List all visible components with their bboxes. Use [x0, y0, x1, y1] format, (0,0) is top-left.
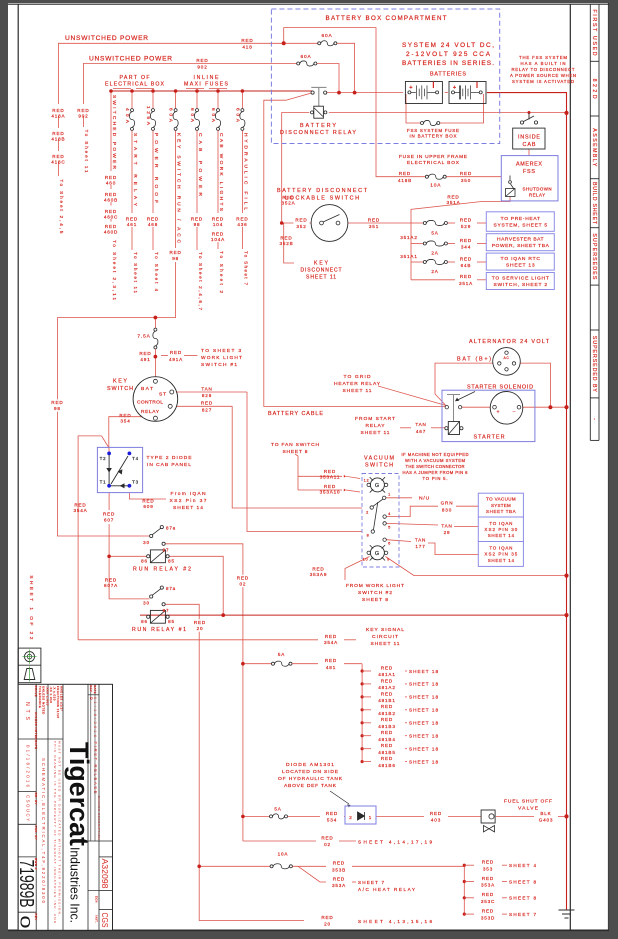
svg-text:5A: 5A	[431, 231, 438, 236]
svg-text:RED: RED	[105, 175, 117, 180]
svg-text:403: 403	[431, 818, 441, 823]
svg-text:29: 29	[444, 530, 451, 535]
svg-text:98: 98	[194, 222, 201, 227]
svg-text:87: 87	[163, 548, 170, 553]
svg-text:VACUUM: VACUUM	[364, 456, 395, 462]
svg-text:TYPE 2 DIODE: TYPE 2 DIODE	[147, 455, 193, 461]
svg-text:IN CAB PANEL: IN CAB PANEL	[147, 462, 191, 468]
svg-text:10A: 10A	[278, 851, 289, 856]
svg-text:481A1: 481A1	[378, 672, 395, 677]
svg-text:UNSWITCHED POWER: UNSWITCHED POWER	[89, 56, 172, 63]
svg-text:RED: RED	[321, 835, 333, 840]
svg-text:THIS DRAWING IS THE PROPERTY O: THIS DRAWING IS THE PROPERTY OF TIGERCAT…	[53, 741, 57, 924]
svg-text:FUSE IN UPPER FRAME: FUSE IN UPPER FRAME	[399, 154, 467, 160]
svg-text:98: 98	[54, 406, 61, 411]
svg-text:KEY: KEY	[314, 261, 329, 267]
svg-text:AC: AC	[504, 356, 510, 360]
svg-text:INLINE: INLINE	[194, 75, 220, 81]
svg-text:87: 87	[163, 608, 170, 613]
svg-text:DR. BY: DR. BY	[34, 793, 38, 805]
svg-text:RED: RED	[77, 108, 89, 113]
svg-text:353A10: 353A10	[320, 490, 341, 495]
svg-text:902: 902	[78, 114, 88, 119]
svg-text:RED: RED	[147, 217, 159, 222]
svg-text:461: 461	[127, 222, 137, 227]
svg-text:RED: RED	[74, 503, 86, 508]
svg-text:CAB WORK LIGHTS: CAB WORK LIGHTS	[218, 133, 224, 211]
svg-text:To Sheet 11: To Sheet 11	[84, 130, 89, 173]
svg-text:353D: 353D	[481, 915, 495, 920]
svg-text:SYSTEM IS ACTIVATED: SYSTEM IS ACTIVATED	[512, 79, 574, 84]
svg-text:RELAY: RELAY	[529, 193, 545, 198]
svg-text:418B: 418B	[51, 137, 65, 142]
svg-text:SWITCH, SHEET 2: SWITCH, SHEET 2	[493, 282, 547, 288]
svg-text:85: 85	[168, 559, 175, 564]
svg-text:BATTERY CABLE: BATTERY CABLE	[268, 411, 323, 417]
svg-text:RED: RED	[201, 401, 213, 406]
svg-text:12: 12	[364, 478, 370, 483]
svg-text:HAS A BUILT IN: HAS A BUILT IN	[521, 61, 566, 66]
svg-text:353A: 353A	[481, 883, 495, 888]
svg-text:RED: RED	[460, 256, 472, 261]
svg-text:RED: RED	[282, 195, 294, 200]
svg-text:XS2 Pin 37: XS2 Pin 37	[170, 498, 207, 504]
svg-text:KEY SIGNAL: KEY SIGNAL	[366, 627, 404, 633]
svg-text:TO IQAN RTC: TO IQAN RTC	[501, 256, 541, 262]
svg-text:RED: RED	[241, 38, 253, 43]
svg-text:351A: 351A	[459, 281, 473, 286]
svg-text:T2: T2	[100, 456, 107, 461]
svg-text:10A: 10A	[430, 183, 441, 189]
svg-text:RED: RED	[52, 131, 64, 136]
svg-text:RED: RED	[52, 154, 64, 159]
svg-text:RED: RED	[381, 743, 393, 748]
svg-text:GRN: GRN	[441, 501, 454, 506]
svg-text:HEATER RELAY: HEATER RELAY	[334, 381, 381, 387]
svg-text:RED: RED	[325, 658, 337, 663]
svg-text:RED: RED	[482, 876, 494, 881]
svg-text:RED: RED	[381, 665, 393, 670]
svg-text:BATTERY BOX COMPARTMENT: BATTERY BOX COMPARTMENT	[326, 15, 447, 22]
svg-text:RED: RED	[237, 576, 249, 581]
svg-text:SHEET 13: SHEET 13	[506, 263, 535, 269]
svg-text:FROM START: FROM START	[355, 416, 395, 422]
svg-text:SHEET 18: SHEET 18	[409, 747, 438, 752]
svg-text:354: 354	[120, 419, 130, 424]
svg-text:354A: 354A	[73, 508, 87, 513]
svg-text:LOCATED ON SIDE: LOCATED ON SIDE	[282, 769, 339, 775]
svg-text:BUILD SHEET: BUILD SHEET	[591, 182, 597, 225]
svg-text:481B5: 481B5	[378, 750, 395, 755]
svg-text:351A1: 351A1	[400, 254, 417, 259]
svg-text:481B4: 481B4	[378, 737, 395, 742]
svg-text:9: 9	[387, 557, 390, 562]
svg-text:+: +	[497, 410, 501, 416]
svg-text:−: −	[513, 409, 517, 415]
svg-text:To Sheet 11: To Sheet 11	[133, 252, 138, 293]
svg-text:418A: 418A	[51, 114, 65, 119]
svg-text:To Sheet 2,4,5: To Sheet 2,4,5	[59, 179, 64, 233]
svg-text:BAT: BAT	[141, 386, 153, 392]
svg-text:RED: RED	[119, 413, 131, 418]
svg-text:0: 0	[18, 916, 34, 929]
svg-text:RELAY TO DISCONNECT: RELAY TO DISCONNECT	[512, 67, 575, 72]
svg-text:02: 02	[240, 582, 247, 587]
svg-text:CONTROL: CONTROL	[137, 400, 163, 406]
svg-text:353A11: 353A11	[320, 475, 340, 480]
svg-text:RED: RED	[381, 756, 393, 761]
svg-text:RED: RED	[126, 217, 138, 222]
svg-text:SCHEMATIC,ELECTRICAL,T4F,8220/: SCHEMATIC,ELECTRICAL,T4F,8220/8300	[41, 758, 46, 904]
svg-text:FRACTIONS ±1/16: FRACTIONS ±1/16	[56, 686, 60, 719]
svg-text:491A: 491A	[169, 357, 183, 362]
svg-text:RED: RED	[139, 351, 151, 356]
svg-text:RED: RED	[236, 217, 248, 222]
svg-text:TAN: TAN	[441, 523, 452, 528]
svg-text:60A: 60A	[189, 108, 195, 123]
svg-text:351A2: 351A2	[400, 235, 417, 240]
svg-text:SUPERSEDED BY: SUPERSEDED BY	[591, 336, 597, 393]
svg-text:481B2: 481B2	[378, 711, 395, 716]
svg-text:352A: 352A	[281, 201, 295, 206]
svg-text:.XX ±.010: .XX ±.010	[49, 686, 53, 703]
svg-text:-: -	[591, 418, 597, 420]
svg-text:TO IQAN: TO IQAN	[489, 546, 512, 551]
svg-text:353A: 353A	[332, 883, 346, 888]
svg-text:ECN: ECN	[94, 896, 98, 903]
svg-text:.XXX ±.005: .XXX ±.005	[46, 686, 50, 706]
svg-text:FROM WORK LIGHT: FROM WORK LIGHT	[346, 583, 404, 589]
svg-text:902: 902	[197, 65, 207, 70]
svg-text:460B: 460B	[104, 197, 118, 202]
svg-text:1: 1	[388, 492, 391, 497]
svg-text:5: 5	[388, 525, 391, 530]
svg-text:T4: T4	[132, 456, 139, 461]
svg-text:UNSWITCHED POWER: UNSWITCHED POWER	[65, 35, 148, 42]
svg-text:STARTER SOLENOID: STARTER SOLENOID	[467, 384, 533, 390]
svg-text:30: 30	[143, 540, 150, 545]
svg-text:XS2 PIN 30: XS2 PIN 30	[484, 527, 517, 532]
svg-text:BLK: BLK	[540, 811, 551, 816]
svg-text:20: 20	[197, 626, 204, 631]
svg-text:RED: RED	[482, 892, 494, 897]
svg-text:2A: 2A	[431, 251, 438, 256]
svg-text:RED: RED	[52, 108, 64, 113]
svg-text:INSIDE: INSIDE	[518, 134, 540, 140]
svg-text:DIODE AM1301: DIODE AM1301	[286, 762, 334, 768]
svg-text:RED: RED	[280, 236, 292, 241]
svg-text:418C: 418C	[51, 160, 65, 165]
svg-text:TO PRE-HEAT: TO PRE-HEAT	[501, 216, 540, 222]
svg-text:RED: RED	[191, 217, 203, 222]
svg-text:SHEET 11: SHEET 11	[343, 388, 372, 394]
svg-text:RED: RED	[460, 217, 472, 222]
svg-text:G403: G403	[539, 818, 554, 823]
svg-text:86: 86	[141, 619, 148, 624]
svg-text:Industries Inc.: Industries Inc.	[68, 847, 82, 923]
svg-text:BATTERIES: BATTERIES	[430, 72, 466, 78]
svg-text:5A: 5A	[278, 652, 285, 657]
svg-text:353B: 353B	[332, 868, 346, 873]
svg-text:T1: T1	[100, 480, 107, 485]
svg-text:SCALE: SCALE	[34, 686, 38, 698]
svg-text:G: G	[375, 551, 380, 557]
svg-text:N/U: N/U	[419, 496, 430, 502]
svg-text:RED: RED	[169, 250, 181, 255]
svg-text:40A: 40A	[124, 108, 130, 124]
svg-text:TO VACUUM: TO VACUUM	[486, 497, 516, 502]
svg-text:460: 460	[106, 180, 116, 185]
svg-text:THE FSS SYSTEM: THE FSS SYSTEM	[519, 55, 567, 60]
svg-text:609: 609	[143, 504, 153, 509]
svg-text:71989B: 71989B	[15, 860, 37, 908]
svg-text:MAXI FUSES: MAXI FUSES	[184, 82, 229, 88]
svg-text:352B: 352B	[279, 241, 293, 246]
svg-text:SWITCH: SWITCH	[365, 463, 393, 469]
svg-text:UNLESS NOTED: UNLESS NOTED	[34, 712, 38, 740]
svg-text:A32098: A32098	[100, 859, 109, 890]
svg-text:SYSTEM, SHEET 5: SYSTEM, SHEET 5	[493, 223, 547, 229]
svg-text:SHUTDOWN: SHUTDOWN	[523, 187, 552, 192]
svg-text:481B6: 481B6	[378, 763, 395, 768]
svg-text:460C: 460C	[104, 214, 118, 219]
svg-text:CGS: CGS	[100, 913, 109, 928]
svg-text:5A: 5A	[274, 807, 281, 812]
svg-text:2: 2	[366, 510, 369, 515]
svg-text:177: 177	[415, 544, 425, 549]
svg-text:30: 30	[143, 601, 150, 606]
svg-text:CSOUCY: CSOUCY	[26, 795, 31, 821]
svg-text:NTS: NTS	[24, 702, 30, 721]
svg-text:RED: RED	[324, 469, 336, 474]
svg-text:RED: RED	[103, 512, 115, 517]
svg-text:20: 20	[324, 922, 331, 927]
svg-text:SHEET 8: SHEET 8	[362, 597, 388, 603]
svg-text:CAB: CAB	[523, 142, 536, 148]
svg-text:RUN RELAY #1: RUN RELAY #1	[132, 627, 186, 633]
svg-text:ELECTRICAL BOX: ELECTRICAL BOX	[407, 160, 460, 166]
svg-text:RED: RED	[51, 400, 63, 405]
svg-text:85: 85	[168, 619, 175, 624]
svg-text:CHK. BY: CHK. BY	[34, 826, 38, 841]
svg-text:SHEET 18: SHEET 18	[409, 695, 438, 700]
svg-text:RED: RED	[333, 876, 345, 881]
svg-text:RED: RED	[194, 620, 206, 625]
svg-text:10: 10	[363, 557, 369, 562]
svg-text:SHEET TBA: SHEET TBA	[486, 509, 516, 514]
svg-text:ASSEMBLY: ASSEMBLY	[591, 128, 597, 167]
svg-text:DISCONNECT: DISCONNECT	[301, 268, 342, 274]
svg-text:RED: RED	[196, 58, 208, 63]
svg-text:RED: RED	[321, 915, 333, 920]
svg-text:RED: RED	[368, 217, 380, 222]
svg-text:529: 529	[461, 224, 471, 229]
svg-text:TAN: TAN	[201, 386, 212, 391]
svg-text:1: 1	[369, 815, 372, 820]
svg-text:467: 467	[416, 429, 426, 434]
svg-text:RED: RED	[381, 730, 393, 735]
svg-text:RED: RED	[460, 274, 472, 279]
svg-text:ABOVE DEF TANK: ABOVE DEF TANK	[284, 783, 337, 789]
svg-text:RELAY: RELAY	[366, 423, 386, 429]
svg-text:86: 86	[141, 559, 148, 564]
svg-text:RED: RED	[142, 499, 154, 504]
svg-text:351: 351	[369, 224, 379, 229]
svg-text:351A: 351A	[446, 200, 460, 205]
svg-text:T3: T3	[132, 480, 139, 485]
svg-text:+: +	[453, 85, 457, 91]
svg-text:RED: RED	[460, 238, 472, 243]
svg-text:DATE: DATE	[93, 685, 97, 694]
svg-text:60A: 60A	[300, 54, 311, 60]
svg-text:436: 436	[237, 222, 247, 227]
svg-text:RED: RED	[447, 195, 459, 200]
svg-text:RED: RED	[381, 704, 393, 709]
svg-text:RED: RED	[381, 678, 393, 683]
svg-text:+: +	[409, 85, 413, 91]
svg-text:481A2: 481A2	[378, 685, 395, 690]
svg-text:RUN RELAY #2: RUN RELAY #2	[133, 567, 191, 573]
svg-text:SYSTEM 24 VOLT DC,: SYSTEM 24 VOLT DC,	[402, 42, 494, 49]
svg-text:FSS: FSS	[523, 169, 535, 175]
svg-text:344: 344	[461, 245, 471, 250]
svg-text:TAN: TAN	[415, 537, 426, 542]
svg-text:SYSTEM: SYSTEM	[491, 503, 511, 508]
svg-text:SWITCH #2: SWITCH #2	[358, 590, 392, 596]
svg-text:DATE: DATE	[34, 740, 38, 749]
svg-text:02: 02	[324, 842, 331, 847]
svg-text:104A: 104A	[211, 237, 225, 242]
svg-text:SHEET 18: SHEET 18	[409, 708, 438, 713]
svg-text:491: 491	[140, 357, 150, 362]
svg-text:AMEREX: AMEREX	[516, 162, 542, 168]
svg-text:RED: RED	[105, 192, 117, 197]
svg-text:468: 468	[148, 222, 158, 227]
svg-text:RED: RED	[381, 691, 393, 696]
svg-text:WITH A VACUUM SYSTEM: WITH A VACUUM SYSTEM	[405, 458, 466, 463]
svg-text:460D: 460D	[104, 229, 118, 234]
svg-text:G: G	[375, 483, 380, 489]
svg-text:SHEET 18: SHEET 18	[409, 734, 438, 739]
svg-text:RED: RED	[324, 484, 336, 489]
svg-text:RED: RED	[105, 209, 117, 214]
svg-text:SHEET 18: SHEET 18	[409, 759, 438, 764]
svg-text:OF HYDRAULIC TANK: OF HYDRAULIC TANK	[278, 776, 343, 782]
svg-text:353: 353	[483, 866, 493, 871]
svg-text:60A: 60A	[321, 33, 332, 39]
svg-text:350: 350	[461, 178, 471, 183]
svg-text:RED: RED	[212, 217, 224, 222]
svg-text:828: 828	[202, 393, 212, 398]
svg-text:HARVESTER BAT: HARVESTER BAT	[497, 237, 544, 243]
svg-text:60A: 60A	[234, 108, 240, 123]
svg-text:.X ±.020: .X ±.020	[53, 686, 57, 701]
svg-text:SHEET 11: SHEET 11	[371, 641, 400, 647]
svg-text:RED: RED	[295, 217, 307, 222]
svg-text:481: 481	[326, 665, 336, 670]
svg-text:WORK LIGHT: WORK LIGHT	[201, 355, 242, 361]
svg-text:RED: RED	[399, 171, 411, 176]
svg-text:2A: 2A	[431, 269, 438, 274]
svg-text:SUPERSEDES: SUPERSEDES	[591, 233, 597, 280]
svg-text:RED: RED	[105, 578, 117, 583]
svg-text:Tigercat: Tigercat	[64, 742, 94, 846]
svg-text:RELAY: RELAY	[141, 409, 160, 415]
svg-text:XS2 PIN 35: XS2 PIN 35	[484, 552, 517, 557]
svg-text:830: 830	[442, 507, 452, 512]
svg-text:SHEET 18: SHEET 18	[409, 682, 438, 687]
svg-text:SHEET 14: SHEET 14	[488, 533, 515, 538]
svg-text:To Sheet 2,4,6,7: To Sheet 2,4,6,7	[198, 252, 203, 310]
svg-text:ST: ST	[159, 392, 167, 398]
svg-text:TOLERANCE: TOLERANCE	[38, 686, 42, 708]
svg-text:4: 4	[388, 511, 391, 516]
svg-text:TO FAN SWITCH: TO FAN SWITCH	[271, 442, 319, 448]
svg-text:RED: RED	[482, 860, 494, 865]
svg-text:354A: 354A	[324, 640, 338, 645]
svg-text:60A: 60A	[210, 108, 216, 123]
svg-text:RED: RED	[170, 350, 182, 355]
svg-text:From IQAN: From IQAN	[171, 491, 206, 497]
svg-text:352: 352	[296, 224, 306, 229]
svg-text:TO GRID: TO GRID	[344, 374, 371, 380]
svg-text:607A: 607A	[104, 583, 118, 588]
svg-text:REV: REV	[89, 685, 93, 692]
svg-text:ELECTRICAL BOX: ELECTRICAL BOX	[105, 82, 165, 88]
svg-text:RED: RED	[430, 811, 442, 816]
svg-text:D: D	[89, 697, 93, 700]
svg-text:RED: RED	[326, 811, 338, 816]
svg-text:481B1: 481B1	[378, 698, 395, 703]
svg-text:TO IQAN: TO IQAN	[489, 521, 512, 526]
svg-text:STARTER: STARTER	[474, 435, 505, 441]
svg-text:481B3: 481B3	[378, 724, 395, 729]
svg-text:THE SWITCH CONNECTOR: THE SWITCH CONNECTOR	[406, 464, 465, 469]
svg-text:INIT.: INIT.	[94, 916, 98, 924]
svg-text:KEY: KEY	[113, 379, 127, 385]
svg-text:RED: RED	[212, 232, 224, 237]
svg-text:DISCONNECT RELAY: DISCONNECT RELAY	[280, 130, 356, 136]
svg-text:UNLESS NOTED: UNLESS NOTED	[42, 686, 46, 715]
svg-text:SHEET 18: SHEET 18	[409, 721, 438, 726]
svg-text:RED: RED	[482, 909, 494, 914]
svg-text:RED: RED	[325, 634, 337, 639]
svg-text:RED: RED	[381, 717, 393, 722]
svg-text:HAS A JUMPER FROM PIN 6: HAS A JUMPER FROM PIN 6	[403, 470, 469, 475]
svg-text:SHEET 14: SHEET 14	[488, 558, 515, 563]
svg-text:418B: 418B	[398, 178, 412, 183]
svg-text:RED: RED	[460, 171, 472, 176]
svg-text:2: 2	[349, 815, 352, 820]
svg-text:TAN: TAN	[415, 422, 426, 427]
svg-text:6: 6	[388, 541, 391, 546]
svg-text:SHEET 7: SHEET 7	[358, 880, 384, 885]
svg-text:SHEET 14: SHEET 14	[173, 505, 203, 511]
svg-text:A POWER SOURCE WHEN: A POWER SOURCE WHEN	[510, 73, 576, 78]
svg-text:SHEET 8: SHEET 8	[283, 449, 308, 455]
svg-text:64B: 64B	[461, 263, 472, 268]
svg-text:FUEL SHUT OFF: FUEL SHUT OFF	[504, 799, 552, 805]
svg-text:IF MACHINE NOT EQUIPPED: IF MACHINE NOT EQUIPPED	[402, 452, 469, 457]
svg-text:RED: RED	[105, 224, 117, 229]
svg-text:SWITCH: SWITCH	[107, 386, 133, 392]
svg-text:353A9: 353A9	[310, 572, 327, 577]
svg-text:418: 418	[242, 45, 252, 50]
svg-text:60A: 60A	[168, 108, 174, 123]
svg-text:TO PIN 5.: TO PIN 5.	[423, 476, 448, 481]
svg-text:RED: RED	[312, 567, 324, 572]
svg-text:RED: RED	[333, 861, 345, 866]
